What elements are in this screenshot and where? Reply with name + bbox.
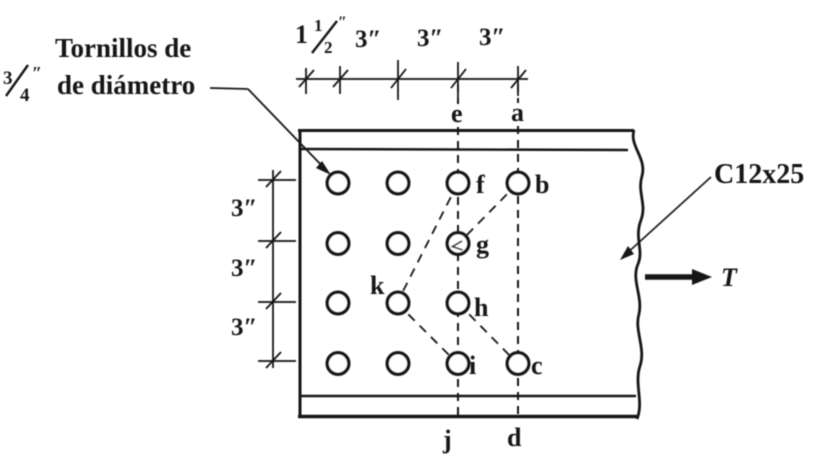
- svg-text:k: k: [370, 271, 385, 300]
- svg-text:2: 2: [324, 38, 333, 57]
- svg-text:j: j: [442, 425, 452, 454]
- bolt r1c2: [387, 172, 409, 194]
- bolt r4c2: [387, 353, 409, 375]
- bolt r3c1: [327, 292, 349, 314]
- svg-text:b: b: [535, 170, 549, 199]
- svg-text:3″: 3″: [479, 24, 505, 51]
- svg-text:4: 4: [20, 85, 30, 106]
- top tick 2: [333, 66, 348, 94]
- leader to bolt r1c1: [210, 88, 327, 171]
- svg-text:3″: 3″: [231, 255, 257, 282]
- plate left edge: [299, 129, 302, 418]
- channel break (wavy right edge): [633, 130, 643, 419]
- svg-text:″: ″: [338, 14, 347, 31]
- svg-text:1: 1: [314, 16, 323, 35]
- svg-text:3″: 3″: [355, 26, 381, 53]
- left tick 2: [258, 232, 296, 248]
- top dimension line: [296, 78, 528, 80]
- dim label 1 1/2": [295, 14, 347, 57]
- dashed section line a-d (column 4): [517, 84, 519, 419]
- bolt r3c2 (k): [387, 292, 409, 314]
- top tick 1: [299, 68, 314, 94]
- svg-text:3″: 3″: [417, 25, 443, 52]
- dashed path b-g: [458, 183, 518, 244]
- left tick 1: [258, 171, 296, 187]
- svg-text:Tornillos de: Tornillos de: [55, 33, 191, 63]
- svg-text:T: T: [721, 263, 738, 292]
- force arrow T: [645, 274, 696, 280]
- dashed path f-k: [397, 183, 458, 303]
- dashed path h-c: [458, 303, 518, 364]
- svg-text:h: h: [474, 293, 489, 322]
- svg-text:i: i: [469, 351, 476, 380]
- left tick 4: [258, 352, 296, 368]
- plate bottom flange line 1: [300, 395, 636, 398]
- plate top flange line 2: [300, 149, 628, 150]
- plate bottom flange line 2: [298, 415, 638, 419]
- dashed section line e-j (column 3): [457, 84, 459, 419]
- svg-text:g: g: [476, 230, 489, 259]
- bolt r4c4 (c): [507, 353, 529, 375]
- plate top flange line 1: [298, 129, 634, 132]
- svg-text:″: ″: [32, 63, 42, 83]
- svg-text:1: 1: [295, 20, 308, 49]
- top tick 5: [511, 66, 526, 96]
- svg-text:de diámetro: de diámetro: [57, 70, 195, 100]
- leader from C12x25 to channel: [625, 177, 711, 255]
- bolt r2c1: [327, 233, 349, 255]
- bolt holes 4x4 grid: [327, 172, 529, 374]
- dashed path k-i: [397, 303, 458, 364]
- svg-text:3″: 3″: [231, 314, 257, 341]
- bolt r2c3 (g): [447, 233, 469, 255]
- bolt r2c2: [387, 233, 409, 255]
- top tick 3: [391, 60, 406, 100]
- svg-text:3: 3: [3, 68, 13, 89]
- arrowhead inside g: [453, 241, 463, 250]
- top tick 4: [451, 62, 466, 102]
- svg-text:c: c: [531, 351, 543, 380]
- svg-text:C12x25: C12x25: [714, 159, 804, 190]
- svg-text:3″: 3″: [231, 195, 257, 222]
- bolt r3c3 (h): [447, 292, 469, 314]
- left dimension line: [272, 170, 274, 368]
- bolt r4c3 (i): [447, 353, 469, 375]
- bolt r4c1: [327, 353, 349, 375]
- svg-text:d: d: [507, 423, 522, 452]
- bolt r1c3 (f): [447, 172, 469, 194]
- left tick 3: [258, 293, 296, 309]
- bolt r1c1: [327, 172, 349, 194]
- bolt r1c4 (b): [507, 172, 529, 194]
- svg-text:a: a: [511, 98, 524, 127]
- svg-text:f: f: [476, 170, 485, 199]
- svg-text:e: e: [451, 99, 463, 128]
